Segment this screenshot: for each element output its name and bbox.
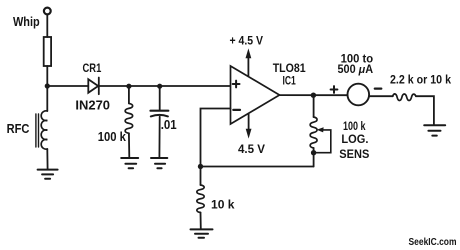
ground (100k): [121, 158, 138, 168]
wire meter to resistor: [370, 95, 393, 97]
op-amp - input sign: [233, 109, 240, 111]
resistor (whip series, box style): [44, 37, 51, 66]
node B junction (100k): [126, 84, 131, 89]
wire terminal to resistor: [46, 15, 48, 37]
svg-text:2.2 k or 10 k: 2.2 k or 10 k: [390, 75, 452, 87]
svg-text:CR1: CR1: [83, 61, 102, 75]
op-amp + input sign: [233, 81, 240, 88]
svg-text:10 k: 10 k: [211, 197, 235, 211]
wire node C to capacitor: [159, 86, 161, 110]
svg-text:RFC: RFC: [7, 122, 30, 136]
node C junction (cap): [157, 84, 162, 89]
svg-text:100 k: 100 k: [98, 130, 126, 144]
svg-text:SeekIC.com: SeekIC.com: [409, 236, 457, 248]
meter M1 100 to 500 uA: [348, 84, 370, 106]
potentiometer 100 k LOG. SENS: [310, 117, 317, 148]
ground (10k): [191, 229, 213, 237]
pot wiper arrow: [316, 130, 331, 153]
svg-text:500 μA: 500 μA: [338, 64, 374, 76]
svg-text:+ 4.5 V: + 4.5 V: [230, 35, 264, 47]
wire resistor to node A: [46, 66, 48, 86]
wire pot bottom to node D wire: [313, 148, 315, 167]
capacitor C1 .01: [151, 110, 169, 112]
svg-text:IN270: IN270: [75, 99, 110, 113]
resistor 10 k: [197, 185, 204, 213]
wire diode cathode to op-amp + input: [99, 85, 231, 87]
wire 10k to ground: [200, 213, 202, 230]
wire node E down to pot: [313, 95, 315, 117]
node D junction: [198, 164, 203, 169]
wire node D to pot bottom: [201, 166, 314, 168]
V+ supply arrow: [247, 54, 249, 76]
node F junction (pot bottom): [311, 150, 316, 155]
ground (right): [424, 125, 445, 135]
wire RFC to ground: [46, 149, 48, 169]
svg-text:IC1: IC1: [283, 75, 297, 87]
resistor 100 k (input load): [125, 103, 132, 133]
wire resistor to ground: [416, 96, 434, 125]
svg-text:Whip: Whip: [13, 15, 40, 29]
wire node A to diode anode: [47, 85, 88, 87]
svg-text:.01: .01: [161, 118, 177, 132]
V- supply arrow: [248, 114, 250, 132]
svg-text:4.5 V: 4.5 V: [238, 144, 265, 156]
ground (cap): [151, 158, 167, 168]
inductor RFC coil: [41, 111, 47, 149]
meter - sign: [375, 87, 382, 89]
diode CR1: [88, 78, 99, 95]
wire - input to feedback column: [201, 109, 231, 186]
resistor 2.2k/10k: [393, 94, 416, 101]
antenna terminal: [44, 8, 51, 15]
svg-text:LOG.: LOG.: [341, 132, 368, 146]
op-amp U1 TLO81: [231, 66, 280, 124]
node E junction (output): [311, 93, 316, 98]
node A junction: [45, 83, 50, 88]
ground (RFC): [38, 170, 58, 179]
wire node B down: [128, 86, 130, 103]
wire node A to RFC: [46, 86, 48, 111]
wire 100k to ground: [128, 133, 130, 158]
meter + sign: [331, 86, 338, 93]
wire capacitor to ground: [158, 117, 160, 158]
inductor RFC core lines: [36, 114, 39, 147]
svg-text:SENS: SENS: [339, 147, 369, 161]
wire op-amp output: [280, 94, 348, 96]
svg-text:TLO81: TLO81: [273, 63, 307, 75]
